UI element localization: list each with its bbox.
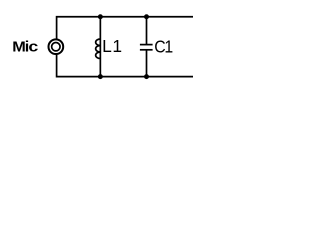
svg-text:Mi: Mi	[12, 40, 29, 56]
svg-text:C1: C1	[154, 37, 173, 57]
svg-text:c: c	[28, 39, 38, 55]
svg-text:L1: L1	[102, 36, 123, 56]
